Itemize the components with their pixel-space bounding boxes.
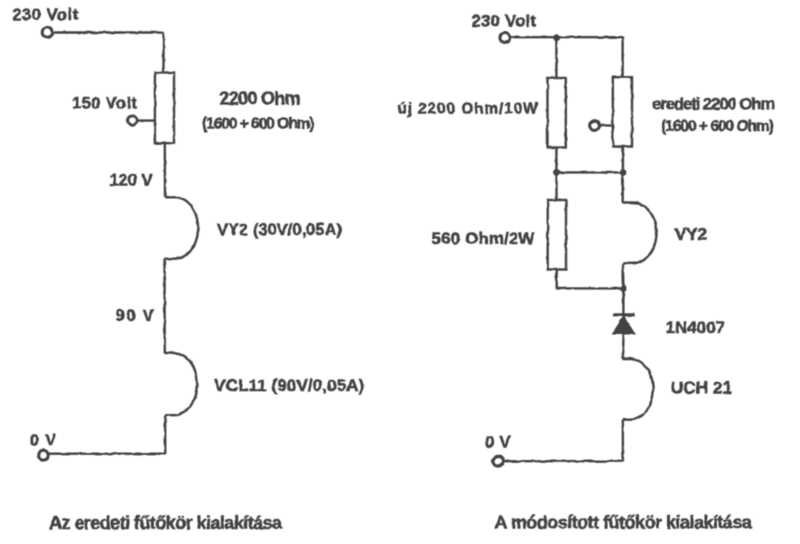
wire below new resistor: [555, 148, 557, 173]
svg-text:90 V: 90 V: [116, 307, 154, 325]
svg-text:(1600 + 600 Ohm): (1600 + 600 Ohm): [661, 118, 774, 135]
terminal 230 Volt right: [500, 33, 510, 43]
heater VCL11: [165, 353, 197, 415]
wire join below horizontal: [557, 287, 624, 289]
svg-text:150 Volt: 150 Volt: [72, 95, 138, 113]
svg-text:120 V: 120 V: [110, 172, 153, 190]
wire top left horizontal: [53, 31, 164, 33]
resistor eredeti 2200 Ohm: [613, 77, 632, 146]
resistor 560 Ohm/2W: [548, 200, 566, 270]
svg-text:230 Volt: 230 Volt: [471, 12, 536, 30]
svg-text:0 V: 0 V: [485, 433, 510, 451]
wire tap to eredeti resistor: [599, 124, 612, 126]
wire diode to UCH21: [622, 333, 625, 358]
wire left branch down: [555, 37, 557, 77]
svg-text:új 2200 Ohm/10W: új 2200 Ohm/10W: [397, 100, 538, 117]
svg-text:Az eredeti fűtőkör kialakítása: Az eredeti fűtőkör kialakítása: [49, 513, 283, 533]
resistor 2200 Ohm left: [155, 73, 174, 144]
svg-text:0 V: 0 V: [30, 432, 56, 450]
svg-text:1N4007: 1N4007: [666, 318, 726, 337]
wire to 560 Ohm resistor: [555, 172, 557, 200]
wire bottom right horizontal: [504, 460, 623, 462]
svg-text:2200 Ohm: 2200 Ohm: [219, 88, 300, 108]
svg-text:560 Ohm/2W: 560 Ohm/2W: [432, 229, 536, 248]
svg-text:(1600 + 600 Ohm): (1600 + 600 Ohm): [202, 115, 315, 132]
wire tap to resistor: [137, 119, 155, 121]
heater UCH21: [623, 359, 653, 420]
terminal 150 Volt tap: [128, 116, 137, 125]
wire to VY2 heater right: [622, 172, 624, 202]
wire bottom left horizontal: [49, 453, 166, 455]
terminal 0 V right: [493, 456, 503, 466]
diode 1N4007 triangle: [614, 317, 634, 334]
heater VY2 right: [623, 203, 657, 264]
wire resistor to VY2 heater: [164, 143, 167, 197]
junction node right mid: [620, 169, 627, 176]
svg-text:230 Volt: 230 Volt: [12, 6, 78, 24]
wire parallel join horizontal: [556, 171, 623, 173]
svg-text:A módosított fűtőkör kialakítá: A módosított fűtőkör kialakítása: [495, 513, 753, 533]
svg-text:VY2 (30V/0,05A): VY2 (30V/0,05A): [217, 221, 342, 239]
svg-text:VY2: VY2: [675, 224, 708, 244]
terminal tap right: [590, 121, 600, 131]
svg-text:VCL11 (90V/0,05A): VCL11 (90V/0,05A): [214, 376, 364, 395]
wire top left vertical: [162, 33, 164, 74]
wire junction to diode: [622, 288, 624, 316]
resistor uj 2200 Ohm/10W: [548, 78, 566, 148]
wire below 560 Ohm resistor: [556, 270, 558, 289]
wire below eredeti resistor: [622, 147, 624, 173]
terminal 230 Volt left: [42, 27, 52, 37]
junction node below VY2: [620, 285, 627, 292]
terminal 0 V left: [38, 450, 48, 460]
heater VY2 left: [165, 197, 198, 258]
wire top right horizontal: [510, 36, 622, 38]
diode 1N4007 cathode bar: [613, 313, 635, 316]
svg-text:eredeti 2200 Ohm: eredeti 2200 Ohm: [652, 96, 775, 114]
wire VY2 to junction: [622, 263, 625, 288]
junction node top right: [553, 34, 560, 41]
svg-text:UCH 21: UCH 21: [671, 378, 733, 398]
wire right branch down: [621, 37, 623, 77]
junction node left mid: [553, 169, 560, 176]
wire UCH21 to bottom: [622, 420, 625, 462]
wire VCL11 to bottom: [164, 415, 167, 454]
wire VY2 to VCL11: [163, 259, 166, 354]
